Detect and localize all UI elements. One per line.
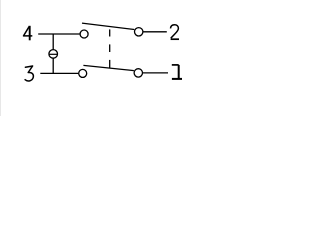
switch arm pole A	[82, 23, 134, 29]
mechanical link dashed	[109, 29, 111, 67]
contact circle pole B common (pin 1)	[134, 69, 142, 77]
wire lamp link vertical	[52, 34, 54, 73]
pin label 2	[171, 25, 180, 40]
lamp filament bar	[49, 53, 57, 55]
pin label 3	[25, 66, 33, 81]
pin label 4	[24, 26, 33, 41]
switch arm pole B	[83, 65, 133, 70]
contact circle pole B fixed (pin 3)	[79, 69, 87, 77]
faint left border	[0, 0, 2, 116]
wire terminal 3	[40, 72, 78, 74]
lamp L1	[49, 50, 58, 59]
wire terminal 2	[143, 31, 167, 33]
wire terminal 4	[38, 33, 80, 35]
wire terminal 1	[143, 72, 168, 74]
contact circle pole A fixed (pin 4)	[80, 30, 88, 38]
pin label 1	[172, 65, 182, 79]
contact circle pole A common (pin 2)	[135, 28, 143, 36]
